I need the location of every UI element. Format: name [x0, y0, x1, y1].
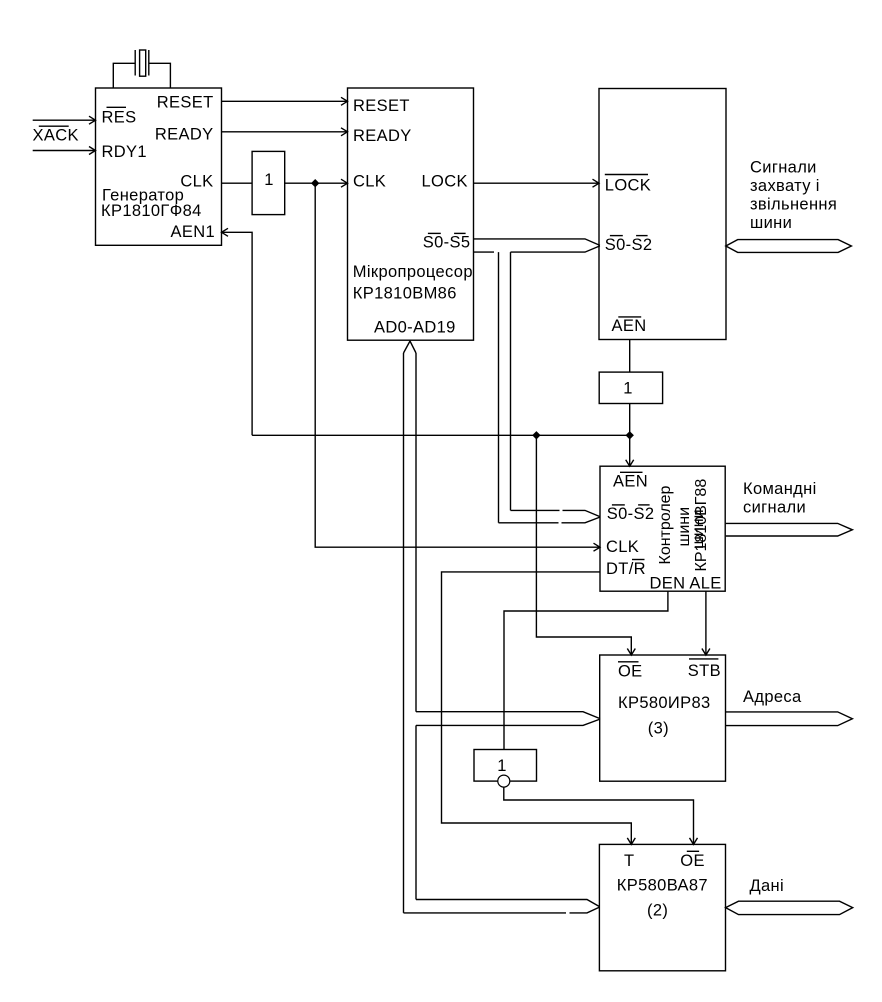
svg-text:OE: OE [680, 852, 705, 870]
svg-text:КР1810ВМ86: КР1810ВМ86 [353, 285, 457, 303]
svg-text:OE: OE [618, 663, 643, 681]
inverter box 1 on AEN [599, 372, 662, 403]
bidirectional bus arrow data [726, 901, 853, 914]
svg-text:S0-S5: S0-S5 [423, 234, 471, 252]
svg-text:1: 1 [264, 171, 274, 189]
svg-text:RES: RES [102, 108, 137, 126]
svg-text:AEN1: AEN1 [170, 223, 215, 241]
svg-text:захвату і: захвату і [750, 177, 820, 195]
svg-text:S0-S2: S0-S2 [607, 505, 655, 523]
svg-text:XACK: XACK [33, 127, 79, 145]
svg-text:LOCK: LOCK [605, 177, 651, 195]
bus controller block KR1810VG88 [600, 466, 725, 593]
bus arrow into KR580IR83 [416, 712, 600, 726]
svg-text:RESET: RESET [157, 94, 214, 112]
wire AEN arbiter down to inverter [629, 340, 631, 373]
svg-text:RDY1: RDY1 [102, 143, 147, 161]
svg-text:(2): (2) [647, 901, 668, 919]
svg-text:Командні: Командні [743, 480, 817, 498]
wire CLK branch to bus controller [315, 183, 600, 551]
svg-text:RESET: RESET [353, 97, 410, 115]
address latch block KR580IR83 [600, 655, 726, 781]
bus AD0-AD19 vertical [404, 341, 417, 913]
wire inverter to controller AEN [626, 404, 634, 467]
svg-text:Дані: Дані [750, 877, 785, 895]
svg-text:CLK: CLK [353, 172, 386, 190]
wire AEN1 to generator [222, 228, 253, 435]
svg-text:звільнення: звільнення [750, 196, 837, 214]
svg-text:шини: шини [750, 214, 792, 232]
wire AEN branch to OE of KR580IR83 [536, 435, 635, 655]
node AEN junction [626, 431, 634, 439]
bus S0-S5 vertical branch [499, 252, 511, 523]
svg-text:(3): (3) [648, 720, 669, 738]
svg-text:1: 1 [497, 757, 507, 775]
wire CLK inverter to microprocessor [285, 179, 348, 187]
bus arrow command signals [726, 523, 853, 536]
wire CLK generator to inverter [222, 182, 253, 184]
wire AEN1 horizontal [252, 434, 630, 436]
svg-text:Адреса: Адреса [743, 688, 802, 706]
wire LOCK microprocessor to arbiter [474, 179, 600, 187]
bus arrow into KR580VA87 [404, 900, 600, 913]
node CLK junction [311, 179, 319, 187]
svg-text:AD0-AD19: AD0-AD19 [374, 318, 456, 336]
inverter box 1 with bubble [474, 750, 537, 788]
wire inverter bubble to OE of KR580VA87 [504, 787, 698, 844]
svg-text:DT/R: DT/R [606, 560, 646, 578]
wire DT/R to T of KR580VA87 [442, 572, 636, 845]
bidirectional bus arrow signals of capture and release [726, 240, 852, 253]
crystal quartz resonator [113, 50, 170, 88]
wire READY generator to microprocessor [222, 128, 348, 136]
svg-text:1: 1 [623, 379, 633, 397]
svg-text:КР580ВА87: КР580ВА87 [617, 876, 708, 894]
generator block KR1810GF84 [96, 88, 222, 245]
wire RES input [33, 116, 96, 124]
svg-text:READY: READY [353, 127, 412, 145]
svg-text:DEN ALE: DEN ALE [650, 575, 722, 593]
svg-text:LOCK: LOCK [422, 172, 468, 190]
svg-text:Контролер: Контролер [657, 485, 674, 564]
svg-text:сигнали: сигнали [743, 499, 806, 517]
svg-text:Сигнали: Сигнали [750, 158, 817, 176]
svg-text:AEN: AEN [612, 317, 647, 335]
svg-text:КР1810ГФ84: КР1810ГФ84 [101, 202, 202, 220]
wire RDY1 input [33, 147, 96, 155]
svg-text:AEN: AEN [613, 473, 648, 491]
svg-text:CLK: CLK [606, 538, 639, 556]
microprocessor block KR1810VM86 [348, 88, 474, 340]
node XACK input label [33, 126, 79, 144]
inverter box 1 on CLK [252, 151, 285, 214]
wire ALE to STB of KR580IR83 [702, 591, 710, 655]
bus arrow address [726, 712, 853, 726]
svg-text:T: T [624, 852, 634, 870]
svg-text:STB: STB [688, 662, 721, 680]
wire RESET generator to microprocessor [222, 97, 348, 105]
svg-text:CLK: CLK [180, 172, 213, 190]
bus S0-S5 microprocessor to arbiter [474, 239, 600, 252]
bus arbiter block [599, 89, 726, 340]
svg-text:КР580ИР83: КР580ИР83 [618, 694, 711, 712]
svg-text:READY: READY [155, 126, 214, 144]
wire DEN to inverter [504, 591, 668, 749]
svg-text:шини: шини [690, 509, 707, 549]
bus arrow into controller S0-S2 [499, 510, 600, 522]
svg-text:S0-S2: S0-S2 [605, 236, 653, 254]
node AEN1 branch junction [532, 431, 540, 439]
svg-text:Мікропроцесор: Мікропроцесор [353, 263, 473, 281]
data transceiver block KR580VA87 [599, 844, 725, 970]
